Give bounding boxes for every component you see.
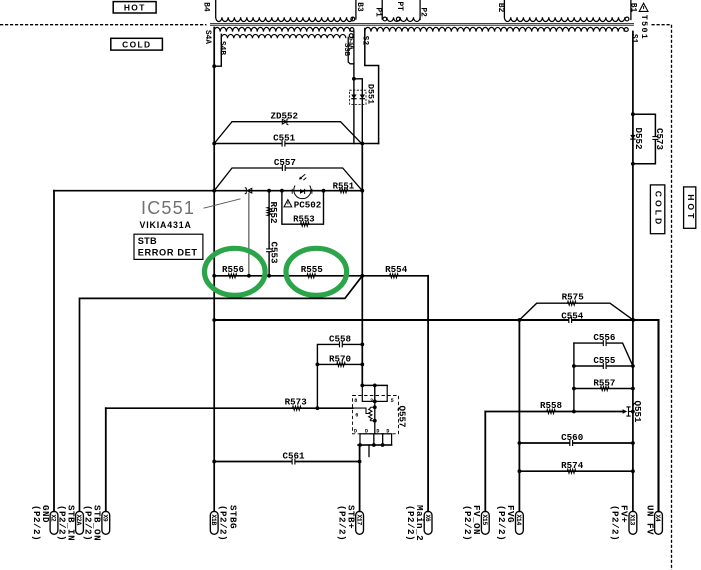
svg-text:5: 5 <box>391 398 394 404</box>
node R574 left <box>518 469 522 473</box>
svg-text:R556: R556 <box>222 264 244 275</box>
svg-text:P1: P1 <box>373 8 381 18</box>
svg-text:R570: R570 <box>329 354 351 365</box>
transistor Q551 symbol <box>623 409 628 413</box>
svg-text:UN FV: UN FV <box>644 505 655 535</box>
wire R553 loop <box>282 191 324 225</box>
node R555/R554 junction <box>360 274 364 278</box>
capacitor C553 <box>268 249 270 252</box>
svg-text:D551: D551 <box>366 84 376 104</box>
terminal B3 <box>355 0 357 19</box>
svg-text:C573: C573 <box>654 128 665 151</box>
COLD label box (top left) <box>111 38 163 50</box>
svg-text:3: 3 <box>370 398 373 404</box>
svg-text:R575: R575 <box>562 291 585 302</box>
svg-text:D552: D552 <box>633 128 644 150</box>
svg-text:D: D <box>365 428 368 434</box>
wire C560 line <box>519 442 633 444</box>
transformer primary winding B4-B3 <box>216 17 353 21</box>
shunt regulator IC551 symbol <box>247 188 252 193</box>
wire R557 line <box>574 388 633 390</box>
connector FV+ (P2/2) <box>629 511 637 534</box>
wire C558-R570 branch <box>317 344 362 408</box>
svg-text:R574: R574 <box>561 460 584 471</box>
wire C555 line <box>574 365 633 367</box>
node C555/rail <box>631 364 635 368</box>
node C558/rail <box>360 343 364 347</box>
svg-text:IC551: IC551 <box>141 198 195 218</box>
node C555 left <box>572 364 576 368</box>
left rail S4A to STBG <box>213 28 215 512</box>
svg-text:(P2/2): (P2/2) <box>31 505 42 541</box>
capacitor C555 <box>604 365 607 367</box>
node C561 right <box>358 460 362 464</box>
svg-text:(P2/2): (P2/2) <box>496 505 507 541</box>
capacitor C554 <box>569 319 572 321</box>
capacitor C573 <box>654 137 656 140</box>
resistor R553 <box>300 222 309 226</box>
svg-text:C560: C560 <box>561 432 583 443</box>
node C560 right <box>631 441 635 445</box>
svg-text:R551: R551 <box>333 182 355 192</box>
IC551 leader line <box>204 199 241 208</box>
photocoupler PC502 ticks <box>292 189 312 194</box>
transformer primary winding B2-B1 <box>504 17 624 21</box>
node C561 left <box>212 460 216 464</box>
svg-text:B1: B1 <box>629 3 637 13</box>
transistor Q557 dashed package <box>353 396 399 434</box>
svg-text:C554: C554 <box>561 310 584 321</box>
svg-text:S2: S2 <box>361 36 369 46</box>
T501 warning triangle <box>639 3 648 11</box>
transistor Q557 base network <box>353 408 369 413</box>
photocoupler PC502 LED <box>300 189 305 194</box>
right rail S1 to FV+ <box>632 32 634 512</box>
HOT label box (right) <box>684 187 696 228</box>
svg-text:COLD: COLD <box>653 191 663 227</box>
diode D551 element A <box>351 95 356 99</box>
resistor R555 <box>307 274 316 278</box>
svg-text:S4A: S4A <box>203 30 211 44</box>
svg-text:T501: T501 <box>639 15 649 40</box>
transformer secondary winding S2-S1 <box>365 27 625 31</box>
resistor R573 <box>292 406 301 410</box>
connector STB+ (P2/2) <box>356 511 364 534</box>
svg-text:B2: B2 <box>496 3 504 13</box>
svg-text:(P2/2): (P2/2) <box>83 505 94 541</box>
node C551/rail <box>212 142 216 146</box>
wire C573 branch <box>633 114 656 164</box>
node D552 top <box>631 112 635 116</box>
transistor Q557 internal wire <box>374 401 376 433</box>
node C553 bottom <box>267 274 271 278</box>
terminal S4B tap wire <box>214 34 221 66</box>
wire feedback line <box>54 190 362 192</box>
svg-text:C556: C556 <box>593 332 615 343</box>
svg-text:PT: PT <box>395 2 403 12</box>
node R557/rail <box>631 387 635 391</box>
svg-text:(P2/2): (P2/2) <box>610 505 621 541</box>
svg-text:8: 8 <box>354 398 357 404</box>
node R558/C555-branch <box>572 410 576 414</box>
svg-text:R553: R553 <box>293 215 315 225</box>
connector UN FV <box>655 511 663 534</box>
wire C556 branch <box>574 343 633 366</box>
isolation boundary dashed line (right) <box>652 25 672 570</box>
transformer secondary winding S4B-S3B <box>221 34 346 38</box>
svg-text:D: D <box>354 428 357 434</box>
wire R573 line <box>106 407 353 409</box>
wire R574 line <box>519 470 633 472</box>
connector FVG (P2/2) <box>516 511 524 534</box>
resistor R575 <box>567 301 576 305</box>
wire FV_ON drop <box>484 412 486 512</box>
svg-text:C555: C555 <box>593 355 616 366</box>
capacitor C557 <box>283 167 286 169</box>
capacitor C560 <box>570 442 573 444</box>
node R553 left <box>280 189 284 193</box>
COLD label box (right) <box>650 185 664 234</box>
svg-text:(P2/2): (P2/2) <box>56 505 67 541</box>
highlight ellipse around R556 <box>205 248 266 295</box>
svg-text:R552: R552 <box>268 202 279 224</box>
wire IC551 reference <box>248 193 250 276</box>
svg-text:(P2/2): (P2/2) <box>336 505 347 541</box>
resistor R574 <box>567 469 576 473</box>
node D552 bottom <box>631 162 635 166</box>
transistor Q557 emitter stub <box>368 445 370 457</box>
terminal S2 wire <box>365 29 379 144</box>
connector Main_2 (P2/2) <box>424 511 432 534</box>
wire C554 ground bus <box>214 320 658 511</box>
svg-text:C561: C561 <box>282 450 305 461</box>
node bus/FVG <box>518 318 522 322</box>
photocoupler PC502 light arrow <box>300 174 306 179</box>
diode D551 dashed package <box>350 90 367 104</box>
node R570/rail <box>360 363 364 367</box>
STB ERROR DET box <box>134 234 203 259</box>
terminal S1 <box>624 28 628 32</box>
node R557 left <box>572 387 576 391</box>
transformer T501 core <box>210 23 634 25</box>
svg-text:B3: B3 <box>355 2 363 12</box>
wire jog to D551 branch <box>354 79 362 144</box>
node R553 right <box>322 189 326 193</box>
svg-text:C558: C558 <box>329 334 352 345</box>
wire R556-R555 line <box>214 275 362 277</box>
svg-text:C551: C551 <box>273 132 296 143</box>
transistor Q557 bottom pads <box>360 434 374 445</box>
svg-text:C557: C557 <box>274 157 296 168</box>
resistor R556 <box>228 274 237 278</box>
svg-text:HOT: HOT <box>124 2 146 12</box>
node Q551/rail <box>631 410 635 414</box>
svg-text:VIKIA431A: VIKIA431A <box>140 220 192 230</box>
svg-text:HOT: HOT <box>686 194 696 221</box>
zener ZD552 <box>282 119 287 124</box>
svg-text:C553: C553 <box>269 242 280 265</box>
node bus/right-rail <box>631 318 635 322</box>
svg-text:R554: R554 <box>385 264 408 275</box>
capacitor C557 wire trapezoid <box>214 168 362 191</box>
svg-text:(P2/2): (P2/2) <box>218 505 229 541</box>
connector STB_IN (P2/2) <box>76 511 84 534</box>
wire FVG drop <box>518 320 520 511</box>
terminal S3B <box>349 34 353 38</box>
wire R552-C553 branch <box>268 191 270 276</box>
node bus/left-rail <box>212 318 216 322</box>
zener ZD552 wire trapezoid <box>214 122 361 144</box>
node R574 right <box>631 469 635 473</box>
connector STBG (P2/2) <box>210 511 218 534</box>
wire GND drop <box>53 191 55 512</box>
svg-text:ZD552: ZD552 <box>271 110 299 121</box>
node R556 line left <box>212 274 216 278</box>
svg-text:COLD: COLD <box>122 39 151 49</box>
connector FV_ON (P2/2) <box>481 511 489 534</box>
resistor R551 <box>339 189 348 193</box>
capacitor C551 <box>282 142 285 144</box>
HOT label box (top left) <box>113 2 156 13</box>
svg-text:X1B: X1B <box>210 514 217 525</box>
svg-text:B4: B4 <box>201 2 209 12</box>
node IC551 ref junction <box>247 274 251 278</box>
svg-text:STB: STB <box>138 236 157 246</box>
node D551/C551 <box>360 142 364 146</box>
svg-text:R573: R573 <box>285 397 308 408</box>
transformer primary winding P1-P2 <box>387 17 420 21</box>
wire R554 line <box>362 275 428 277</box>
terminal S3A <box>350 28 354 32</box>
node C560 left <box>518 441 522 445</box>
wire STB_ON drop <box>105 408 107 511</box>
resistor R558 <box>547 409 556 413</box>
resistor R570 <box>337 362 346 366</box>
svg-text:D: D <box>376 428 379 434</box>
wire STB_IN line <box>80 276 363 512</box>
node R570 left <box>316 363 320 367</box>
svg-text:P2: P2 <box>419 8 427 18</box>
svg-text:Q557: Q557 <box>397 406 408 428</box>
isolation boundary dashed line (left) <box>0 24 207 26</box>
photocoupler PC502 circle <box>294 186 311 199</box>
Main_2 rail <box>427 276 429 512</box>
highlight ellipse around R555 <box>286 248 347 295</box>
node R552 top <box>267 189 271 193</box>
svg-text:S3B: S3B <box>342 43 350 57</box>
capacitor C558 <box>340 343 343 345</box>
svg-text:S4B: S4B <box>217 41 225 55</box>
svg-text:R555: R555 <box>301 264 324 275</box>
svg-text:PC502: PC502 <box>294 200 322 211</box>
wire C551 line <box>214 143 378 145</box>
resistor R575 wire trapezoid <box>519 303 633 320</box>
connector GND (P2/2) <box>50 511 58 534</box>
svg-text:(P2/2): (P2/2) <box>405 505 416 541</box>
transformer secondary winding S4A-S3A <box>214 27 350 31</box>
node S3 junction <box>352 77 356 81</box>
resistor R557 <box>600 386 609 390</box>
svg-text:6: 6 <box>355 413 358 419</box>
wire STB+ drop <box>359 445 361 511</box>
svg-text:(P2/2): (P2/2) <box>462 505 473 541</box>
connector STB_ON (P2/2) <box>102 511 110 534</box>
resistor R554 <box>390 274 399 278</box>
wire S3 to D551 <box>353 64 355 144</box>
PC502 warning triangle <box>284 200 292 207</box>
capacitor C561 <box>292 460 295 462</box>
wire R558 line <box>485 411 624 413</box>
node R570-branch/R573 <box>316 406 320 410</box>
diode D552 <box>630 135 635 139</box>
node feedback/right-rail <box>360 189 364 193</box>
node feedback/left-rail <box>212 189 216 193</box>
svg-text:R557: R557 <box>593 378 615 389</box>
diode D551 element B <box>360 95 365 99</box>
capacitor C556 <box>604 342 607 344</box>
STB+ rail <box>361 144 363 386</box>
wire C561 line <box>214 461 359 463</box>
svg-text:D: D <box>386 428 389 434</box>
resistor R552 <box>267 207 271 216</box>
transistor Q557 top pads <box>362 384 387 386</box>
svg-text:ERROR DET: ERROR DET <box>138 247 198 257</box>
svg-text:R558: R558 <box>540 400 563 411</box>
wire C556-R557 left branch <box>573 343 575 411</box>
